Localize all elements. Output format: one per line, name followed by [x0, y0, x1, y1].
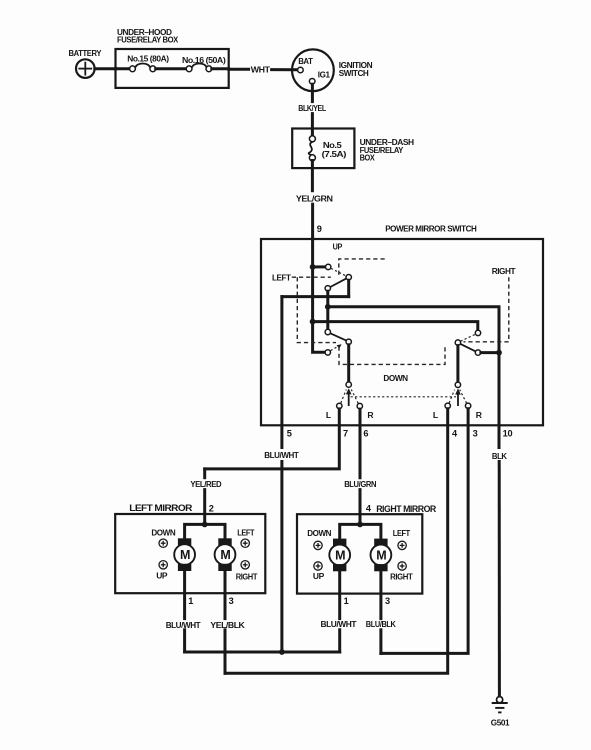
wire right mirror pin 3 upper: [379, 571, 382, 618]
direction dot up (right mirror): [314, 562, 322, 570]
svg-text:BLU/WHT: BLU/WHT: [321, 619, 358, 629]
wire left mirror pin 3 upper: [224, 571, 227, 619]
svg-text:L: L: [433, 410, 438, 420]
junction dot C3 riser / H2: [325, 304, 331, 310]
upper-left switch pivot P1: [346, 275, 351, 280]
svg-text:BAT: BAT: [298, 56, 313, 66]
svg-text:FUSE/RELAY BOX: FUSE/RELAY BOX: [117, 34, 179, 44]
svg-text:R: R: [476, 410, 483, 420]
right switch contact C5: [475, 330, 480, 335]
junction dot left mirror feed: [202, 522, 208, 528]
wire right mirror pin 1 upper: [338, 571, 341, 618]
svg-text:RIGHT: RIGHT: [236, 571, 258, 581]
svg-text:IG1: IG1: [318, 69, 330, 79]
svg-text:6: 6: [363, 429, 368, 439]
left pole actuating arrow: [346, 388, 352, 406]
wire WHT to ignition switch: [229, 68, 298, 72]
direction dot right (right mirror): [398, 562, 406, 570]
wire right mirror pin 3 lower to crossover A2: [379, 630, 382, 654]
right pole P5: [455, 382, 460, 387]
dotted pole interlink: [351, 396, 456, 398]
upper-left switch contact C1: [326, 264, 331, 269]
svg-text:YEL/GRN: YEL/GRN: [296, 194, 333, 204]
ignition switch IG1 terminal: [309, 79, 315, 85]
under-dash fuse/relay box label: [360, 137, 414, 162]
svg-text:UP: UP: [313, 571, 325, 581]
power mirror switch box: [261, 239, 543, 425]
wire pin 5 riser upper: [280, 297, 283, 448]
wire P4 riser to right pole: [456, 346, 459, 382]
fuse No.16: [186, 63, 212, 71]
wire YEL/RED lower into left mirror pin 2: [203, 490, 206, 525]
fuse No.5 label: [322, 140, 347, 159]
svg-text:9: 9: [317, 224, 322, 234]
svg-text:5: 5: [287, 429, 292, 439]
svg-text:1: 1: [344, 596, 349, 606]
fuse No.15: [130, 63, 156, 71]
svg-text:RIGHT: RIGHT: [390, 572, 413, 582]
wire right mirror pin 1 lower to splice A: [338, 630, 341, 652]
svg-text:BOX: BOX: [360, 153, 375, 163]
svg-text:BLU/BLK: BLU/BLK: [366, 619, 397, 629]
svg-text:BLK/YEL: BLK/YEL: [298, 103, 326, 113]
dashed arrow C6 to blade: [331, 344, 342, 350]
wire H2 horizontal to pin 10 drop: [328, 307, 499, 448]
left pole P3: [346, 382, 351, 387]
svg-text:2: 2: [209, 504, 214, 514]
wire pin 7 drop: [205, 409, 340, 469]
upper-left switch contact C3: [325, 286, 330, 291]
svg-text:(7.5A): (7.5A): [322, 149, 347, 159]
right switch pivot P4: [455, 340, 460, 345]
right switch dashed alternate blade: [461, 334, 476, 341]
svg-text:BATTERY: BATTERY: [69, 48, 102, 58]
svg-text:YEL/RED: YEL/RED: [190, 479, 221, 489]
lower-left switch contact C4: [325, 329, 330, 334]
wire into fuse No.15: [116, 67, 130, 70]
wire main feed vertical from pin 9: [313, 239, 326, 352]
right mirror motor M4 (left/right): [371, 539, 392, 572]
right switch contact C7: [475, 350, 480, 355]
right mirror box: [297, 514, 422, 593]
svg-text:M: M: [180, 548, 190, 562]
ignition switch label: [339, 60, 373, 78]
ignition switch body: [292, 49, 334, 91]
svg-text:3: 3: [385, 596, 390, 606]
direction dot left: [241, 539, 249, 547]
ground G501: [492, 697, 508, 713]
svg-text:DOWN: DOWN: [307, 528, 331, 538]
dashed linkage right pole contacts: [449, 390, 467, 404]
right switch blade: [460, 344, 475, 351]
svg-text:WHT: WHT: [251, 65, 271, 75]
right mirror motor M3 (up/down): [329, 539, 350, 572]
svg-text:No.15 (80A): No.15 (80A): [127, 54, 169, 64]
wire splice A horizontal: [185, 651, 340, 654]
junction dot feed/UP contact branch: [310, 264, 316, 270]
junction dot right mirror feed: [357, 522, 363, 528]
svg-text:3: 3: [229, 596, 234, 606]
direction dot right: [241, 561, 249, 569]
dashed UP linkage: [339, 259, 385, 275]
svg-text:BLU/WHT: BLU/WHT: [264, 450, 299, 460]
wire YEL/GRN lower to switch pin 9: [311, 204, 314, 239]
dashed DOWN linkage: [339, 347, 445, 365]
svg-text:R: R: [367, 410, 374, 420]
dashed LEFT linkage: [292, 277, 336, 342]
wire pin 10 to ground: [498, 462, 501, 697]
svg-text:BLK: BLK: [492, 451, 508, 461]
junction dot feed/H3 branch: [310, 319, 316, 325]
svg-text:POWER MIRROR SWITCH: POWER MIRROR SWITCH: [385, 223, 476, 233]
left mirror motor M2 (left/right): [215, 538, 236, 571]
wire left mirror pin 1 upper: [183, 571, 186, 619]
junction dot right switch output on pin 10 drop: [496, 350, 502, 356]
svg-text:LEFT: LEFT: [393, 528, 411, 538]
svg-text:UP: UP: [333, 242, 343, 252]
svg-text:10: 10: [503, 429, 513, 439]
wire BLK/YEL lower into under-dash box: [311, 114, 314, 136]
wire pin 5 riser lower to splice: [280, 462, 283, 653]
dashed linkage left pole contacts: [341, 390, 358, 404]
wire fuse No.16 to box edge: [212, 67, 229, 70]
wire left mirror pin 1 lower to splice A: [183, 630, 186, 652]
svg-text:LEFT MIRROR: LEFT MIRROR: [129, 503, 192, 513]
wire C3 riser through junction to C4: [326, 291, 329, 329]
left pole contact L: [337, 403, 342, 408]
wire YEL/RED riser upper: [203, 469, 206, 478]
battery symbol: [76, 59, 95, 78]
junction dot splice A: [279, 649, 285, 655]
wire C7 to junction on pin 10 drop: [481, 351, 499, 354]
right pole contact R: [465, 403, 470, 408]
under-dash fuse/relay box: [292, 129, 354, 169]
fuse No.5: [309, 136, 316, 161]
direction dot up: [159, 561, 167, 569]
wire pin 3 drop to crossover A2: [381, 409, 468, 654]
svg-text:RIGHT MIRROR: RIGHT MIRROR: [376, 504, 436, 514]
wire pin 4 drop to crossover B: [225, 409, 448, 674]
svg-text:LEFT: LEFT: [272, 273, 292, 283]
svg-text:G501: G501: [491, 718, 510, 728]
svg-text:BLU/GRN: BLU/GRN: [344, 479, 376, 489]
svg-text:SWITCH: SWITCH: [339, 68, 369, 78]
under-hood fuse/relay box label: [117, 27, 179, 45]
svg-text:RIGHT: RIGHT: [492, 266, 517, 276]
wire between fuses: [156, 67, 187, 70]
svg-text:1: 1: [188, 596, 193, 606]
wire junction to UP switch upper contact: [313, 265, 326, 268]
svg-text:DOWN: DOWN: [151, 527, 175, 537]
wire H3 horizontal to right switch upper contact: [313, 322, 478, 331]
wire P2 riser to left pole: [347, 345, 350, 382]
lower-left switch contact C6: [325, 350, 330, 355]
wire BLU/GRN lower into right mirror pin 4: [359, 490, 362, 525]
right pole contact L: [445, 403, 450, 408]
ignition switch BAT terminal: [298, 67, 304, 73]
wire pivot P1 riser to H1: [347, 280, 350, 296]
lower-left switch pivot P2: [346, 339, 351, 344]
wire IG1 down (BLK/YEL upper): [311, 84, 314, 101]
svg-text:M: M: [335, 548, 345, 562]
right pole actuating arrow: [455, 388, 461, 406]
svg-text:4: 4: [366, 504, 372, 514]
wire left mirror pin 3 lower to crossover B: [224, 630, 227, 674]
svg-text:4: 4: [452, 429, 458, 439]
wire pin 6 drop (BLU/GRN upper): [359, 409, 362, 478]
left pole contact R: [357, 403, 362, 408]
wire battery to under-hood fuse box: [95, 67, 116, 70]
svg-text:3: 3: [473, 429, 478, 439]
svg-text:L: L: [326, 410, 331, 420]
svg-text:M: M: [376, 548, 386, 562]
direction dot down: [159, 539, 167, 547]
svg-text:YEL/BLK: YEL/BLK: [210, 620, 245, 630]
direction dot left (right mirror): [398, 541, 406, 549]
wire left mirror feed branch: [185, 524, 225, 539]
svg-text:7: 7: [343, 429, 348, 439]
svg-text:M: M: [220, 548, 230, 562]
left mirror motor M1 (up/down): [174, 538, 195, 571]
svg-text:UP: UP: [156, 570, 168, 580]
under-hood fuse/relay box: [116, 49, 229, 88]
left mirror box: [115, 514, 265, 593]
lower-left switch blade: [330, 333, 346, 340]
upper-left switch dashed alternate blade: [331, 268, 346, 276]
upper-left switch blade: [330, 278, 346, 287]
svg-text:LEFT: LEFT: [237, 527, 255, 537]
svg-text:DOWN: DOWN: [383, 373, 408, 383]
wire under-dash box down (YEL/GRN upper): [311, 161, 314, 191]
direction dot down (right mirror): [314, 541, 322, 549]
wire right mirror feed branch: [340, 524, 381, 539]
wire H1 horizontal to pin 5 riser: [282, 295, 349, 298]
dashed RIGHT linkage: [464, 277, 509, 342]
